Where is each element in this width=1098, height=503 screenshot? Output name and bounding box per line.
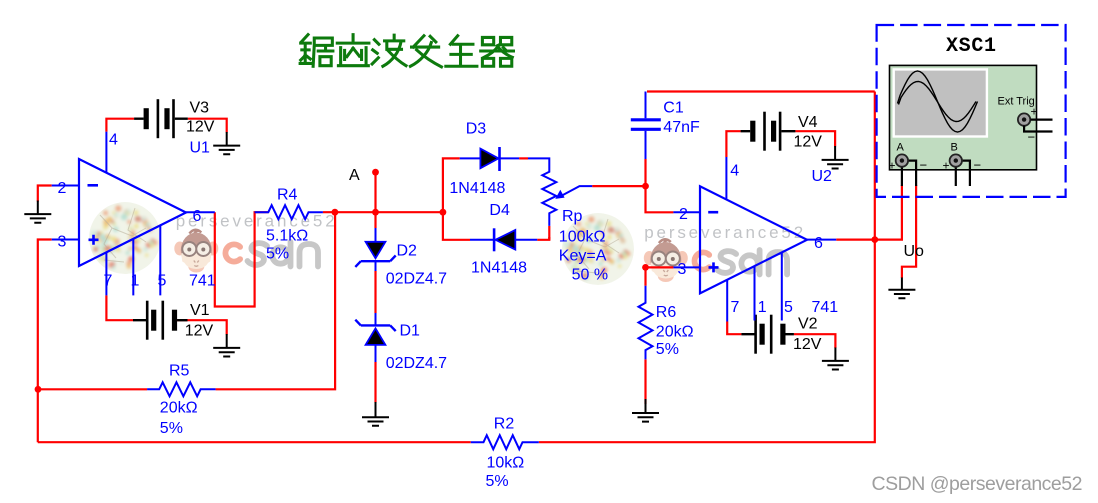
svg-text:100kΩ: 100kΩ: [559, 229, 606, 246]
diode D4: [470, 228, 537, 251]
node junction R4/R5/A: [332, 209, 339, 216]
diode D3: [460, 147, 519, 171]
U1 pin 7 lead: [105, 252, 107, 295]
wire U1 pin7 to V1: [106, 295, 133, 320]
svg-text:C1: C1: [663, 100, 684, 117]
svg-text:−: −: [974, 158, 982, 173]
resistor R4: [255, 205, 323, 219]
node junction R5 left: [35, 386, 42, 393]
svg-text:741: 741: [189, 273, 216, 290]
svg-text:Ext Trig: Ext Trig: [998, 96, 1035, 108]
svg-text:02DZ4.7: 02DZ4.7: [386, 355, 447, 372]
wire D4 branch left: [443, 212, 470, 240]
svg-text:D2: D2: [397, 243, 418, 260]
ground (U1 pin2): [24, 201, 51, 223]
TITLE é¯é½¿æ³¢åçå¨ drawn as strokes: [300, 35, 513, 67]
svg-text:Uo: Uo: [904, 243, 925, 260]
title char chi: [337, 35, 369, 66]
wire R2 right to right rail: [539, 92, 875, 443]
svg-text:B: B: [951, 142, 958, 154]
svg-text:47nF: 47nF: [663, 119, 700, 136]
svg-text:5: 5: [784, 299, 793, 316]
RED WIRES: [38, 92, 916, 443]
svg-text:5%: 5%: [486, 473, 509, 490]
wire D3 right to pot top: [519, 157, 528, 159]
title char sheng: [446, 36, 477, 67]
U2 pin 1 lead: [754, 266, 756, 320]
wire V3 left to U1 pin4: [106, 119, 134, 132]
svg-text:−: −: [920, 158, 928, 173]
wire node A to D2: [374, 212, 376, 228]
wire U1 pin3 down left rail: [38, 240, 52, 443]
svg-text:D1: D1: [400, 323, 421, 340]
svg-text:R5: R5: [169, 363, 190, 380]
svg-text:5%: 5%: [266, 246, 289, 263]
oscilloscope screen: [894, 69, 987, 136]
resistor R6: [639, 286, 653, 360]
ground (Uo / scope A-): [888, 278, 915, 299]
Ext Trig terminal: [1018, 105, 1053, 145]
WATERMARKS: [89, 202, 803, 285]
svg-text:A: A: [897, 142, 905, 154]
svg-text:5%: 5%: [160, 420, 183, 437]
ground (D1 zeners): [362, 402, 389, 426]
svg-text:12V: 12V: [793, 336, 822, 353]
op-amp U2: [673, 157, 836, 322]
monkey mascot 1: [174, 230, 218, 273]
potentiometer Rp: [528, 158, 592, 226]
svg-text:D3: D3: [466, 121, 487, 138]
wire node A stub: [374, 172, 376, 212]
wire U1 pin2 to ground: [38, 186, 52, 202]
wire R4 to node A to D3D4: [323, 211, 443, 213]
zener diode D1: [355, 313, 395, 362]
resistor R5: [147, 382, 216, 396]
svg-text:1: 1: [758, 299, 767, 316]
U1 pin 2 lead: [52, 185, 79, 187]
svg-text:2: 2: [679, 206, 688, 223]
Rp wiper arrow: [562, 186, 593, 196]
wire pot bottom lead red: [548, 226, 550, 240]
svg-text:20kΩ: 20kΩ: [160, 400, 198, 417]
wire D3 branch left: [443, 158, 460, 212]
U1 pin 5 lead: [159, 225, 161, 295]
svg-text:CSDN @perseverance52: CSDN @perseverance52: [872, 473, 1083, 495]
wire U2 pin3 node: [646, 266, 674, 268]
svg-text:V1: V1: [190, 302, 210, 319]
ground (R6): [632, 399, 659, 422]
waveform trace A: [898, 71, 978, 132]
wire output node to scope A+: [875, 185, 902, 240]
svg-text:+: +: [943, 159, 950, 173]
wire C1 bottom to node: [644, 159, 646, 186]
ground (V1): [213, 334, 240, 357]
title char bo: [372, 35, 406, 66]
svg-text:R4: R4: [277, 187, 298, 204]
wire V4 right to ground: [795, 131, 835, 146]
zener diode D2: [355, 228, 395, 271]
svg-text:R6: R6: [656, 304, 677, 321]
svg-text:6: 6: [193, 208, 202, 225]
svg-text:Key=A: Key=A: [559, 248, 607, 265]
ground (V4): [822, 146, 849, 169]
node junction A column: [372, 209, 379, 216]
wire D1 to ground: [374, 362, 376, 403]
svg-text:10kΩ: 10kΩ: [487, 455, 525, 472]
wire V3 right to ground: [188, 119, 227, 133]
node junction D3/D4 left: [440, 209, 447, 216]
svg-text:2: 2: [58, 180, 67, 197]
svg-text:6: 6: [814, 235, 823, 252]
svg-text:1N4148: 1N4148: [449, 180, 505, 197]
wire R6 bottom to ground: [644, 359, 646, 404]
node junction R6/pin3: [642, 264, 649, 271]
svg-text:12V: 12V: [794, 134, 823, 151]
svg-text:V3: V3: [190, 100, 210, 117]
CSDN logo 2 (csdn drawn): [695, 250, 788, 275]
svg-text:1: 1: [131, 273, 140, 290]
svg-text:V4: V4: [798, 114, 818, 131]
svg-text:U1: U1: [190, 140, 211, 157]
svg-text:1N4148: 1N4148: [471, 260, 527, 277]
title char qi: [481, 37, 514, 66]
terminal B: [943, 142, 982, 187]
svg-text:5%: 5%: [656, 341, 679, 358]
capacitor C1: [631, 92, 661, 160]
oscilloscope XSC1 dashed selection box: [877, 25, 1066, 197]
svg-text:20kΩ: 20kΩ: [656, 324, 694, 341]
wire V1 right to ground: [176, 320, 227, 334]
U2 pin 3 lead: [673, 266, 700, 268]
wire top rail C1 to right: [647, 90, 875, 92]
svg-text:7: 7: [104, 273, 113, 290]
wire scope A- to ground: [902, 185, 916, 278]
wire R5 left: [38, 388, 147, 390]
U1 pin 3 lead: [52, 239, 79, 241]
op-amp U1: [52, 132, 215, 296]
svg-text:4: 4: [109, 132, 118, 149]
wire wiper to C1 node: [592, 185, 645, 187]
svg-text:7: 7: [731, 299, 740, 316]
svg-text:D4: D4: [489, 202, 510, 219]
svg-text:4: 4: [730, 163, 739, 180]
wire U2 pin6 to output node: [836, 239, 875, 241]
U2 pin 4 lead: [725, 157, 727, 200]
node junction C1/wiper: [642, 183, 649, 190]
node junction U2 output: [871, 236, 878, 243]
svg-text:5.1kΩ: 5.1kΩ: [266, 228, 308, 245]
svg-text:12V: 12V: [186, 119, 215, 136]
battery V3: [134, 99, 188, 138]
terminal A: [889, 142, 928, 187]
ground (V2): [822, 348, 849, 370]
svg-text:50 %: 50 %: [572, 267, 608, 284]
battery V2: [741, 315, 794, 354]
wire R6 top red: [644, 267, 646, 285]
svg-text:V2: V2: [798, 315, 818, 332]
svg-text:Rp: Rp: [562, 208, 583, 225]
map circle watermark 1: [89, 202, 161, 274]
svg-text:3: 3: [678, 261, 687, 278]
wire U1 pin6 U-dip to R4: [215, 212, 268, 306]
monkey mascot 2: [644, 239, 688, 282]
U2 pin 2 lead: [673, 211, 700, 213]
SCOPE: [877, 25, 1066, 197]
wire bottom rail left to R2: [38, 441, 471, 443]
wire U2 pin7 to V2: [727, 322, 741, 335]
oscilloscope body: [890, 65, 1037, 169]
CSDN logo 1 (csdn drawn): [225, 242, 318, 267]
node A terminal: [372, 169, 379, 176]
svg-text:+: +: [1031, 105, 1038, 119]
svg-text:3: 3: [58, 234, 67, 251]
title char ju: [300, 35, 333, 67]
U2 pin 6 lead: [807, 239, 836, 241]
U2 pin 7 lead: [726, 280, 728, 322]
U2 pin 5 lead: [781, 253, 783, 321]
svg-text:R2: R2: [494, 416, 515, 433]
BLACK PARTS: [24, 99, 915, 426]
svg-text:+: +: [889, 159, 896, 173]
svg-text:741: 741: [812, 299, 839, 316]
svg-text:XSC1: XSC1: [946, 35, 996, 58]
wire D2 to D1: [374, 271, 376, 313]
resistor R2: [471, 435, 539, 449]
wire node to U2 pin2: [646, 186, 674, 212]
svg-text:02DZ4.7: 02DZ4.7: [386, 271, 447, 288]
battery V4: [741, 112, 796, 151]
svg-text:−: −: [1028, 130, 1036, 145]
BLUE PARTS: [52, 92, 837, 450]
wire R5 right up to R4 node: [216, 212, 336, 389]
U1 pin 6 lead: [186, 211, 215, 213]
ground (V3): [213, 132, 240, 154]
svg-text:12V: 12V: [185, 323, 214, 340]
wire U2 pin4 to V4: [726, 131, 740, 157]
wire V2 right to ground: [794, 334, 836, 348]
svg-text:A: A: [349, 167, 360, 184]
U1 pin 4 lead: [105, 132, 107, 173]
battery V1: [133, 301, 188, 340]
title char fa: [410, 36, 441, 67]
wire D4 right to pot bottom: [537, 237, 549, 240]
svg-text:U2: U2: [812, 168, 833, 185]
waveform trace B: [899, 82, 977, 122]
svg-text:5: 5: [158, 273, 167, 290]
U1 pin 1 lead: [132, 239, 134, 296]
map circle watermark 2: [562, 213, 634, 285]
